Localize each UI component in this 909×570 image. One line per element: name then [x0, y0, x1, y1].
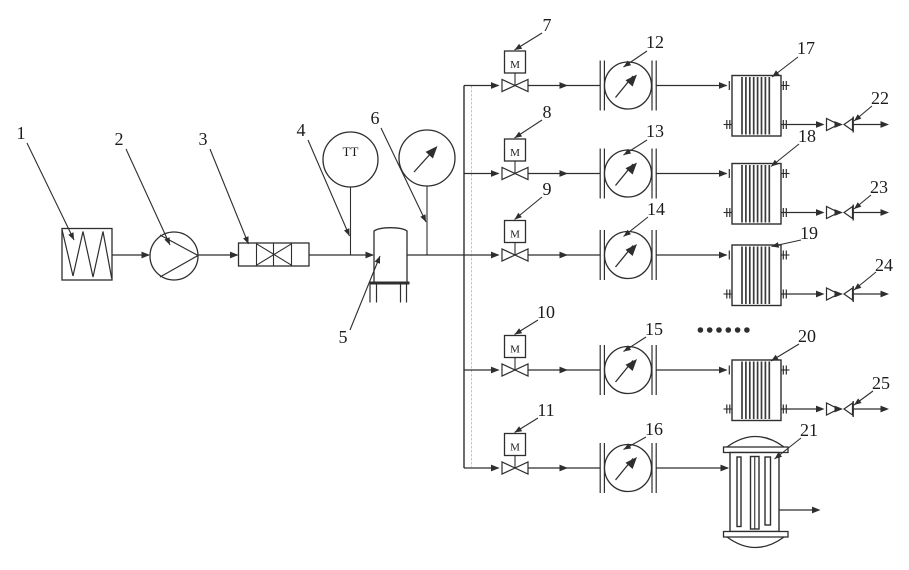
leader for label 6: [381, 128, 426, 222]
filter 21 outlet wire: [779, 509, 815, 511]
meter dial: [605, 62, 652, 109]
svg-text:4: 4: [297, 120, 306, 140]
hx outlet ticks: [782, 290, 784, 299]
hx top-right stub: [781, 254, 790, 256]
pressure gauge 6: [399, 130, 455, 186]
hx bottom-left stub: [724, 212, 733, 214]
svg-text:8: 8: [543, 102, 552, 122]
manifold: [463, 86, 465, 469]
svg-text:2: 2: [115, 129, 124, 149]
hx bottom-left stub: [724, 293, 733, 295]
meter flanges: [599, 149, 601, 199]
wire valve to meter: [528, 85, 600, 87]
svg-text:10: 10: [537, 302, 555, 322]
filter 21 bottom dome: [727, 537, 784, 548]
leader for label 11: [515, 418, 539, 433]
leader for label 2: [126, 149, 170, 245]
leader for label 9: [515, 197, 543, 220]
actuator M box: [514, 73, 516, 86]
filter 21 elements: [737, 457, 741, 527]
leader for label 20: [771, 344, 799, 361]
leader for label 18: [771, 144, 799, 167]
wire meter to heat exchanger: [656, 173, 726, 175]
outlet valve: [827, 403, 839, 415]
wire to outlet arrow: [853, 124, 883, 126]
valve body: [502, 364, 515, 376]
wire manifold to valve: [464, 173, 499, 175]
outlet valve: [827, 288, 839, 300]
valve body: [502, 249, 515, 261]
filter 21 body: [730, 453, 779, 532]
svg-text:23: 23: [870, 177, 888, 197]
leader for label 3: [210, 149, 249, 244]
leader for label 16: [624, 437, 647, 450]
wire meter16 to filter: [656, 467, 728, 469]
svg-text:M: M: [510, 229, 520, 241]
leader for label 4: [308, 140, 350, 236]
leader for label 22: [854, 106, 872, 121]
wire to outlet arrow: [853, 212, 883, 214]
wire valve to meter: [528, 254, 600, 256]
filter 21 top plate: [724, 447, 789, 453]
svg-text:17: 17: [797, 38, 815, 58]
svg-text:1: 1: [17, 123, 26, 143]
svg-text:18: 18: [798, 126, 816, 146]
svg-text:19: 19: [800, 223, 818, 243]
svg-text:13: 13: [646, 121, 664, 141]
leader for label 7: [515, 33, 543, 50]
wire manifold to valve: [464, 369, 499, 371]
wire meter to heat exchanger: [656, 369, 726, 371]
actuator M box: [514, 161, 516, 174]
actuator M box: [514, 243, 516, 256]
buffer tank 5: [374, 228, 407, 231]
wire filter1 to pump: [112, 254, 149, 256]
svg-text:14: 14: [647, 199, 665, 219]
wire manifold to valve: [464, 254, 499, 256]
svg-text:7: 7: [543, 15, 552, 35]
wire tank to manifold: [407, 254, 464, 256]
actuator M box: [514, 358, 516, 371]
leader for label 15: [624, 337, 647, 352]
mixer 3: [239, 243, 310, 266]
hx top-right stub: [781, 85, 790, 87]
leader for label 1: [27, 143, 74, 240]
svg-text:16: 16: [645, 419, 663, 439]
meter dial: [605, 445, 652, 492]
leader for label 24: [854, 272, 876, 290]
outlet valve: [827, 119, 839, 131]
wire hx outlet: [781, 293, 818, 295]
outlet valve: [827, 207, 839, 219]
temperature transmitter TT 4: [323, 132, 378, 187]
leader for label 12: [624, 51, 648, 67]
ellipsis dots: [698, 327, 704, 333]
filter 21 dome top: [727, 437, 784, 448]
heat exchanger body: [732, 360, 781, 421]
svg-text:11: 11: [537, 400, 554, 420]
wire mixer to tank: [309, 254, 373, 256]
hx top-right stub: [781, 173, 790, 175]
svg-text:M: M: [510, 59, 520, 71]
meter flanges: [599, 345, 601, 395]
svg-text:6: 6: [371, 108, 380, 128]
hx outlet ticks: [782, 208, 784, 217]
svg-text:3: 3: [199, 129, 208, 149]
leader for label 21: [775, 438, 802, 459]
wire meter to heat exchanger: [656, 85, 726, 87]
filter 1: [62, 229, 112, 281]
svg-text:20: 20: [798, 326, 816, 346]
wire gauge stem: [426, 186, 428, 256]
pump 2: [150, 232, 198, 280]
leader for label 14: [624, 217, 649, 237]
svg-text:M: M: [510, 344, 520, 356]
svg-text:M: M: [510, 442, 520, 454]
leader for label 17: [772, 57, 798, 77]
meter dial: [605, 347, 652, 394]
svg-text:TT: TT: [343, 144, 359, 159]
valve body: [502, 462, 515, 474]
wire TT stem: [350, 187, 352, 255]
svg-text:22: 22: [871, 88, 889, 108]
leader for label 8: [515, 120, 543, 138]
leader for label 25: [854, 391, 873, 405]
wire meter to heat exchanger: [656, 254, 726, 256]
meter flanges: [599, 443, 601, 493]
meter flanges: [599, 61, 601, 111]
svg-text:24: 24: [875, 255, 893, 275]
actuator M box: [514, 456, 516, 469]
valve body: [502, 168, 515, 180]
wire manifold to valve: [464, 85, 499, 87]
hx outlet ticks: [782, 120, 784, 129]
wire to outlet arrow: [853, 408, 883, 410]
wire hx outlet: [781, 212, 818, 214]
hx bottom-left stub: [724, 124, 733, 126]
svg-text:5: 5: [339, 327, 348, 347]
leader for label 10: [515, 320, 539, 335]
wire valve to meter: [528, 369, 600, 371]
wire hx outlet: [781, 408, 818, 410]
heat exchanger body: [732, 245, 781, 306]
meter dial: [605, 150, 652, 197]
wire valve to meter: [528, 173, 600, 175]
hx outlet ticks: [782, 405, 784, 414]
leader for label 23: [854, 195, 871, 209]
svg-text:9: 9: [543, 179, 552, 199]
valve body: [502, 80, 515, 92]
wire to outlet arrow: [853, 293, 883, 295]
leader for label 13: [624, 140, 648, 155]
svg-text:21: 21: [800, 420, 818, 440]
svg-text:15: 15: [645, 319, 663, 339]
heat exchanger body: [732, 164, 781, 225]
hx bottom-left stub: [724, 408, 733, 410]
meter dial: [605, 232, 652, 279]
wire valve to meter: [528, 467, 600, 469]
wire hx outlet: [781, 124, 818, 126]
meter flanges: [599, 230, 601, 280]
hx top-right stub: [781, 369, 790, 371]
heat exchanger body: [732, 76, 781, 137]
leader for label 19: [772, 240, 802, 247]
svg-text:25: 25: [872, 373, 890, 393]
wire manifold to valve: [464, 467, 499, 469]
wire pump to mixer: [198, 254, 238, 256]
svg-text:M: M: [510, 147, 520, 159]
svg-text:12: 12: [646, 32, 664, 52]
leader for label 5: [350, 256, 380, 330]
filter 21 bottom plate: [724, 532, 789, 538]
